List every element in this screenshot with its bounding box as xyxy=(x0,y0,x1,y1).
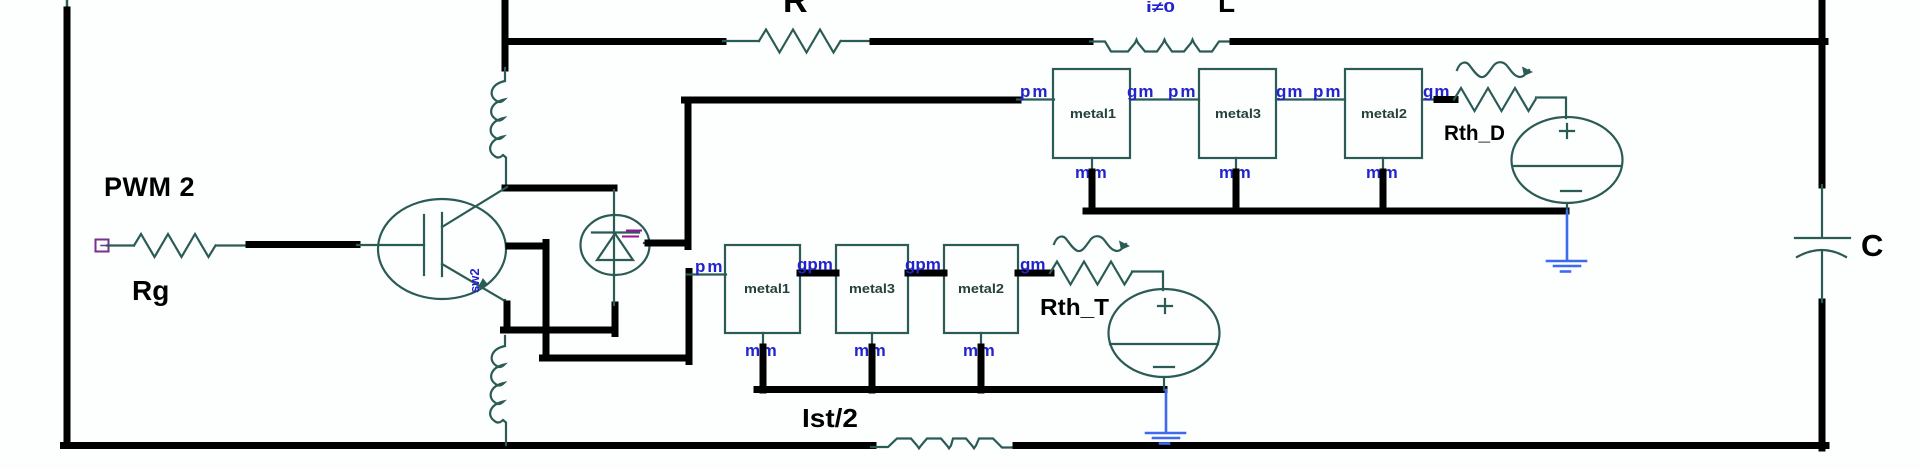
capacitor C xyxy=(1795,185,1850,302)
squiggle RthT xyxy=(1054,236,1126,251)
inductor lower stray coil xyxy=(490,336,506,445)
pin gm3-pm2 upper xyxy=(1276,98,1345,100)
svg-text:metal3: metal3 xyxy=(1215,106,1261,121)
wire bus y358 xyxy=(543,355,690,362)
ground lower xyxy=(1146,390,1185,444)
pin mm stubs upper xyxy=(1092,158,1383,174)
wire mm bus lower xyxy=(757,386,1164,393)
wire gate thick xyxy=(249,241,357,248)
wire thin lead from R xyxy=(841,40,873,42)
ground upper xyxy=(1547,211,1586,272)
wire top rail seg1 xyxy=(505,38,723,45)
label diode i marks xyxy=(623,231,641,237)
svg-text:sw2: sw2 xyxy=(467,268,482,293)
wire gate thin xyxy=(357,244,424,246)
wire upper pm bus xyxy=(685,97,1019,104)
wire mm drops lower xyxy=(763,347,981,390)
wire gm2 to RthD xyxy=(1437,96,1455,103)
source V upper xyxy=(1512,117,1623,211)
svg-text:metal2: metal2 xyxy=(958,281,1004,296)
wire top rail seg2 xyxy=(873,38,1090,45)
svg-text:PWM 2: PWM 2 xyxy=(104,172,195,202)
node top-left stub xyxy=(66,0,69,10)
wire mm bus upper xyxy=(1086,208,1566,215)
wire RthD to source xyxy=(1536,98,1566,119)
svg-text:C: C xyxy=(1861,228,1883,263)
wire Rg lead xyxy=(216,244,250,246)
resistor Rth_T xyxy=(1050,262,1132,285)
box metal3 upper xyxy=(1199,69,1276,158)
wire top riser xyxy=(502,0,509,68)
transistor Q igbt xyxy=(378,187,507,301)
box metal2 lower xyxy=(944,245,1018,333)
svg-text:gm: gm xyxy=(1276,82,1304,101)
wire emitter thick down xyxy=(504,304,511,330)
svg-text:pm: pm xyxy=(1020,82,1050,101)
svg-text:metal1: metal1 xyxy=(744,281,790,296)
wire mm drops upper xyxy=(1092,172,1383,211)
diode D freewheel xyxy=(581,190,653,305)
box metal1 upper xyxy=(1053,69,1130,158)
wire up x689 xyxy=(686,272,693,362)
port square PWM xyxy=(96,240,109,252)
wire diode cathode link xyxy=(648,240,688,247)
svg-text:Rth_D: Rth_D xyxy=(1444,122,1505,145)
wire bottom rail left xyxy=(64,442,874,449)
pin gm2 out upper xyxy=(1422,98,1440,100)
pin pm lower row xyxy=(687,273,726,275)
svg-text:R: R xyxy=(783,0,808,20)
pin gm1-pm3 upper xyxy=(1130,98,1199,100)
inductor L xyxy=(1090,40,1236,52)
wire collector bus xyxy=(505,185,614,192)
resistor R xyxy=(759,30,841,53)
svg-text:pm: pm xyxy=(1313,82,1343,101)
box metal2 upper xyxy=(1345,69,1422,158)
svg-text:Ist/2: Ist/2 xyxy=(802,403,858,433)
wire right rail upper xyxy=(1819,0,1826,185)
svg-text:metal2: metal2 xyxy=(1361,106,1407,121)
pin mm stubs lower xyxy=(763,333,981,349)
svg-text:Rth_T: Rth_T xyxy=(1040,294,1109,320)
resistor Rg xyxy=(134,234,216,257)
resistor Rth_D xyxy=(1454,88,1536,111)
svg-text:L: L xyxy=(1218,0,1235,18)
wire right rail lower xyxy=(1819,302,1826,448)
svg-text:gpm: gpm xyxy=(797,255,833,274)
squiggle RthD xyxy=(1457,62,1529,77)
wire gm2 out lower xyxy=(1018,270,1051,277)
pin pm upper row xyxy=(1017,98,1054,100)
wire gm1-pm3 lower xyxy=(800,270,836,277)
svg-text:i≠0: i≠0 xyxy=(1146,0,1175,16)
arrow emitter xyxy=(478,279,487,288)
svg-text:gm: gm xyxy=(1020,255,1046,274)
inductor upper stray coil xyxy=(490,68,506,190)
wire down x546 xyxy=(543,243,550,359)
wire Q right terminal xyxy=(509,243,546,250)
wire emitter stub xyxy=(504,300,506,306)
wire thin lead to R xyxy=(723,40,759,42)
svg-text:gm: gm xyxy=(1127,82,1155,101)
svg-text:pm: pm xyxy=(1168,82,1198,101)
inductor Ist/2 bottom coil xyxy=(871,439,1018,449)
wire left rail xyxy=(64,10,71,445)
box metal1 lower xyxy=(725,245,800,333)
wire top rail seg3 xyxy=(1233,38,1825,45)
svg-text:Rg: Rg xyxy=(132,275,169,306)
svg-text:pm: pm xyxy=(695,257,725,276)
wire port to Rg xyxy=(107,244,134,246)
source V lower xyxy=(1109,289,1220,390)
svg-text:gpm: gpm xyxy=(905,255,941,274)
box metal3 lower xyxy=(836,245,908,333)
wire RthT to source xyxy=(1132,272,1163,291)
wire emitter bottom link xyxy=(504,327,616,334)
wire up x688 xyxy=(685,100,692,247)
svg-text:metal1: metal1 xyxy=(1070,106,1116,121)
wire gm3-pm2 lower xyxy=(908,270,944,277)
wire diode anode riser xyxy=(612,305,619,334)
svg-text:metal3: metal3 xyxy=(849,281,895,296)
wire bottom rail right xyxy=(1016,442,1826,449)
